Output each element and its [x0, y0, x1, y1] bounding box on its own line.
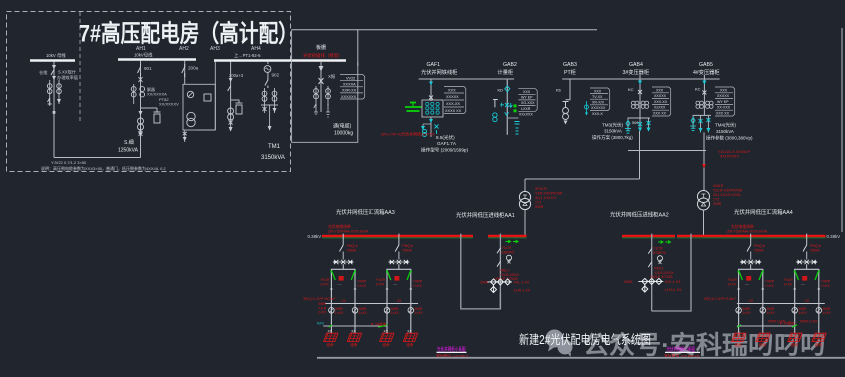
cyan diamond	[505, 86, 510, 92]
svg-text:YJLV22-X.X/XXkV²: YJLV22-X.X/XXkV²	[718, 150, 751, 154]
svg-text:组串: 组串	[735, 342, 743, 347]
cyan feeder marks	[626, 121, 630, 127]
svg-text:3P(L)+1.5?P+4C/m²: 3P(L)+1.5?P+4C/m²	[303, 297, 336, 301]
CT pair left (stacked circles)	[131, 87, 136, 97]
wire: GAB5 column down	[703, 132, 705, 190]
T bar	[628, 117, 651, 119]
section line S2	[562, 78, 720, 80]
svg-text:1250kVA: 1250kVA	[118, 148, 139, 154]
svg-text:XXX: XXX	[594, 89, 602, 93]
wire down to link	[53, 113, 55, 158]
svg-text:0.38kV: 0.38kV	[827, 234, 841, 239]
PT chain	[563, 102, 569, 108]
X on left leg	[264, 105, 266, 113]
svg-text:XX: XX	[397, 299, 402, 303]
cyan arrow top	[638, 81, 642, 85]
busbar C (continues out of box)	[214, 59, 346, 62]
svg-text:1×XX: 1×XX	[318, 311, 327, 315]
red label at T-GAB5	[713, 184, 743, 206]
CT right (double circle)	[57, 84, 62, 94]
svg-text:AH2: AH2	[179, 46, 189, 52]
cyan arrow top	[702, 81, 706, 85]
wire: D drop	[267, 62, 269, 65]
GAB3 table	[590, 88, 608, 111]
svg-text:3X10XXXX: 3X10XXXX	[720, 155, 739, 159]
svg-text:XX/XXXXV: XX/XXXXV	[159, 102, 179, 107]
X breaker	[702, 91, 706, 95]
wire: AA2 loop	[652, 234, 691, 311]
bracket bar	[261, 104, 278, 106]
busbar right A	[622, 235, 675, 237]
svg-text:Y×XX: Y×XX	[413, 284, 423, 288]
red label column far left	[318, 302, 327, 315]
T bar	[693, 114, 711, 116]
svg-text:XXXXX: XXXXX	[654, 94, 667, 98]
fuse X row group 2	[389, 260, 410, 270]
svg-text:组串: 组串	[327, 342, 335, 347]
PV string panel at 354.2	[347, 330, 361, 347]
svg-text:.....: .....	[393, 282, 398, 286]
svg-text:.....: .....	[337, 282, 342, 286]
svg-text:3L(1.1/1XX.X: 3L(1.1/1XX.X	[535, 196, 557, 200]
arrow right branch	[57, 99, 61, 104]
green earth marks right	[737, 325, 797, 327]
wire: GAB4 drop	[639, 75, 641, 118]
combiner cabinet 3 (open frame)	[727, 269, 774, 303]
svg-text:XX: XX	[805, 299, 810, 303]
circle w/ squiggle (PT)	[264, 66, 271, 73]
arrow on right leg	[274, 105, 276, 113]
svg-text:XR-X/X: XR-X/X	[592, 101, 605, 105]
svg-text:/250A: /250A	[810, 248, 820, 252]
wire branch left B1	[133, 84, 135, 104]
internal dashed divider	[79, 12, 81, 121]
svg-text:PT柜: PT柜	[564, 68, 576, 76]
svg-text:YZR-XXXPX/XW: YZR-XXXPX/XW	[535, 192, 563, 196]
busbar A	[30, 59, 75, 61]
breaker slash	[51, 70, 54, 76]
svg-text:XXX: XXX	[448, 89, 456, 93]
svg-text:计量柜: 计量柜	[498, 68, 514, 76]
svg-text:GAF1.7A: GAF1.7A	[437, 141, 457, 146]
svg-text:XWLR: XWLR	[713, 184, 724, 188]
svg-text:WY EP: WY EP	[717, 100, 729, 104]
svg-text:506: 506	[632, 121, 638, 125]
svg-text:TM3(光伏): TM3(光伏)	[602, 122, 623, 129]
svg-text:XWR: XWR	[535, 205, 544, 209]
svg-text:Y×XX: Y×XX	[821, 284, 831, 288]
svg-text:ZR-YZW/NH-XXX/1kVA: ZR-YZW/NH-XXX/1kVA	[727, 230, 767, 234]
breaker slash	[648, 249, 651, 254]
cyan symbols on GAB2	[501, 103, 504, 107]
svg-text:办理效率值: 办理效率值	[57, 74, 78, 81]
three feeders	[692, 115, 694, 128]
meter circle	[506, 255, 511, 260]
svg-text:1×XX: 1×XX	[766, 311, 775, 315]
svg-text:3X1.1/1XX.XX/XL: 3X1.1/1XX.XX/XL	[713, 193, 741, 197]
svg-text:光伏电缆线带: 光伏电缆线带	[328, 224, 351, 229]
breaker slash D	[265, 78, 268, 88]
arrow on B1	[139, 111, 143, 116]
svg-text:XXX-XX: XXX-XX	[654, 100, 668, 104]
table bracket	[363, 75, 365, 99]
fuse X row group 1	[333, 260, 354, 270]
svg-text:光伏初级排（框架）: 光伏初级排（框架）	[303, 52, 343, 59]
wire: AA2 chain	[651, 234, 653, 311]
breaker slash	[497, 248, 500, 253]
svg-text:1×XX: 1×XX	[359, 311, 368, 315]
GAB5 table	[715, 87, 733, 116]
top feeder line	[292, 29, 597, 31]
svg-text:XX: XX	[351, 330, 356, 334]
svg-text:XXL-1 XX: XXL-1 XX	[665, 280, 681, 284]
svg-text:XX: XX	[749, 299, 754, 303]
wires 3 to strings	[738, 304, 740, 334]
three feeders	[627, 118, 629, 131]
wire: link down-left to AA1 transformer	[525, 178, 640, 180]
meter circle	[657, 256, 662, 261]
GAB4 table	[652, 87, 669, 116]
wire to AA1 bus	[524, 210, 526, 235]
svg-text:操作方案 (3800,7kg): 操作方案 (3800,7kg)	[592, 134, 633, 141]
svg-text:XWR: XWR	[713, 202, 722, 206]
svg-text:XXXXXX: XXXXXX	[591, 106, 606, 110]
svg-text:AH3: AH3	[210, 46, 220, 52]
wire branch right D	[274, 88, 276, 105]
green marks on AA1 bus	[506, 240, 519, 243]
wire branch left D	[264, 88, 266, 105]
string meters 2	[384, 308, 413, 314]
svg-text:说明：高压侧电缆参数为XXX3×50，普通门，低压侧参数为4: 说明：高压侧电缆参数为XXX3×50，普通门，低压侧参数为4XX/4L 0.2	[41, 165, 166, 171]
svg-text:XPXLR: XPXLR	[535, 187, 547, 191]
wire: box bottom link	[196, 129, 215, 131]
svg-text:光伏并网低压汇流箱AA4: 光伏并网低压汇流箱AA4	[734, 208, 793, 216]
PV string panel at 330.5	[324, 330, 338, 347]
cyan dashes column	[515, 122, 520, 135]
svg-text:KD: KD	[498, 88, 504, 93]
svg-text:2P(L)+1.5?P+2.5m²: 2P(L)+1.5?P+2.5m²	[704, 297, 736, 301]
wire: GAB3 stub	[566, 79, 571, 100]
enclosure dashed border	[7, 12, 291, 172]
branch left	[315, 86, 317, 106]
svg-text:XX: XX	[328, 330, 333, 334]
slash 2	[648, 262, 651, 267]
PV cabinet box	[292, 30, 358, 143]
svg-text:200a+3: 200a+3	[229, 73, 244, 78]
section line S1	[419, 78, 514, 80]
arrow below	[183, 137, 187, 141]
svg-text:YZLR-XXXPX/XW: YZLR-XXXPX/XW	[713, 189, 743, 193]
wire: GAF1 drop	[430, 79, 432, 101]
bottom frame line	[317, 357, 845, 359]
svg-text:组串: 组串	[406, 342, 414, 347]
transformer T-GAB5	[698, 191, 710, 211]
string meters 1	[329, 308, 358, 314]
CT left (double circle)	[47, 84, 52, 94]
svg-text:901: 901	[144, 66, 152, 71]
wire: drop in cabinet	[320, 62, 322, 112]
svg-text:光伏并网柜小系图: 光伏并网柜小系图	[667, 346, 696, 353]
GAB2 table	[518, 89, 535, 112]
table texts	[341, 77, 357, 99]
cyan arrow	[429, 82, 433, 86]
svg-text:GAF1: GAF1	[427, 62, 441, 68]
PV string panel at 762.8	[756, 333, 770, 347]
GAF1 table rows	[444, 87, 464, 114]
svg-text:XXX: XXX	[720, 88, 728, 92]
breaker 901 slash	[138, 64, 141, 76]
svg-text:/250A: /250A	[402, 248, 412, 252]
svg-text:XxXXX: XxXXX	[654, 106, 666, 110]
watermark logo bubbles	[546, 330, 573, 358]
CT D left	[262, 91, 267, 101]
svg-text:XWR 1×XX: XWR 1×XX	[800, 320, 818, 324]
wire: B1 drop	[140, 61, 142, 158]
green earth marks left	[329, 325, 388, 327]
svg-text:.....: .....	[745, 282, 750, 286]
wire: feed to metering box	[214, 62, 216, 131]
PV string group 4 feeder breaker	[803, 234, 821, 260]
wire: GAB2 drop	[506, 79, 508, 135]
wire to right PV bus	[703, 210, 705, 235]
svg-text:XXX XX: XXX XX	[653, 112, 667, 116]
svg-text:NXX: NXX	[317, 322, 325, 326]
CT on B1 (double circle)	[138, 118, 144, 130]
wires 1 to strings	[330, 304, 332, 334]
wire: right edge feeder	[841, 28, 843, 232]
svg-text:XXxXXX: XXxXXX	[519, 113, 533, 117]
svg-text:组串: 组串	[383, 342, 391, 347]
green squares	[514, 104, 517, 107]
string meters 4	[792, 308, 822, 314]
svg-text:8.5(光伏): 8.5(光伏)	[436, 134, 455, 141]
svg-text:XXXXX: XXXXX	[446, 95, 459, 99]
svg-text:LXXR: LXXR	[521, 107, 531, 111]
svg-text:902: 902	[272, 73, 280, 78]
inverter transformer box	[422, 100, 443, 117]
wire: C1 drop	[230, 62, 232, 132]
CT D right	[272, 91, 277, 101]
svg-text:1×XX: 1×XX	[783, 282, 792, 286]
svg-text:XXX: XXX	[656, 88, 664, 92]
svg-text:XG-XXX: XG-XXX	[521, 101, 535, 105]
svg-text:XXXXA: XXXXA	[343, 83, 356, 87]
svg-text:Kb: Kb	[556, 88, 562, 93]
svg-text:光伏电缆线带: 光伏电缆线带	[731, 224, 754, 229]
combiner cabinet 1 (open frame)	[320, 269, 367, 303]
svg-text:XXX-XX: XXX-XX	[446, 102, 460, 106]
svg-text:7#高压配电房（高计配）: 7#高压配电房（高计配）	[79, 20, 298, 48]
svg-text:新建2#光伏配电房电气系统图: 新建2#光伏配电房电气系统图	[519, 332, 651, 347]
PV string panel at 410.2	[403, 330, 417, 347]
svg-text:200A: 200A	[624, 280, 633, 284]
svg-text:VV22: VV22	[346, 77, 355, 81]
svg-text:1×XX: 1×XX	[376, 282, 385, 286]
meter circle	[187, 91, 193, 97]
svg-text:组串: 组串	[759, 342, 767, 347]
PV string panel at 794.7	[788, 333, 802, 347]
green marks on bus	[658, 241, 671, 244]
wire link to transformer B	[54, 157, 141, 159]
svg-text:仓缆: 仓缆	[39, 69, 48, 76]
wire: branch right	[58, 80, 60, 104]
busbar AA1 (red)	[488, 235, 527, 237]
PV string group 3 feeder breaker	[747, 234, 765, 260]
wire: section A main drop	[53, 62, 55, 114]
svg-text:10000kg: 10000kg	[334, 131, 353, 137]
cyan capacitor branch	[586, 101, 588, 113]
svg-text:1x7b-1 XX: 1x7b-1 XX	[665, 288, 682, 292]
right meters line	[737, 303, 825, 305]
svg-text:TV-XX: TV-XX	[592, 95, 603, 99]
winding circles (cyan)	[426, 102, 440, 114]
svg-text:XWLP 1/7X25: XWLP 1/7X25	[650, 275, 673, 279]
arrow C1 bottom	[229, 127, 233, 132]
PV string panel at 386.5	[380, 330, 394, 347]
svg-text:XXX-X: XXX-X	[592, 112, 603, 116]
small element	[204, 94, 211, 101]
svg-text:XXXX XX: XXXX XX	[445, 109, 462, 113]
svg-text:光伏并网低压进线柜AA1: 光伏并网低压进线柜AA1	[456, 211, 515, 219]
step line	[507, 117, 518, 119]
svg-text:XXR-XX: XXR-XX	[342, 89, 357, 93]
svg-text:YJV22 0.7/1.2 3×50: YJV22 0.7/1.2 3×50	[51, 160, 87, 165]
svg-text:200A: 200A	[480, 281, 489, 285]
svg-text:10kV母线: 10kV母线	[134, 52, 153, 59]
breaker X	[139, 77, 143, 82]
disconnector arrow	[52, 65, 56, 70]
wire: feeder drop to bus	[357, 30, 359, 66]
right earth link	[737, 325, 795, 327]
svg-text:1x7b-1 XX: 1x7b-1 XX	[514, 289, 531, 293]
PV string panel at 738.6	[732, 333, 746, 347]
PV string group 1 feeder breaker	[340, 234, 358, 260]
svg-text:GAB4: GAB4	[629, 62, 643, 68]
svg-text:XX: XX	[341, 299, 346, 303]
CT circles right	[326, 89, 331, 99]
svg-text:GAB3: GAB3	[563, 62, 577, 68]
wire: horizontal link GAB4-GAB5	[628, 150, 706, 152]
cyan feeder marks	[691, 118, 695, 124]
svg-text:1×XX: 1×XX	[414, 311, 423, 315]
svg-text:1×XX: 1×XX	[742, 311, 751, 315]
svg-text:GAB2: GAB2	[503, 62, 517, 68]
svg-text:组串: 组串	[815, 342, 823, 347]
svg-text:1×XX: 1×XX	[727, 282, 736, 286]
X C1	[229, 121, 233, 125]
svg-text:3150kVA: 3150kVA	[261, 155, 285, 161]
wire spur to capacitor	[141, 107, 158, 109]
svg-text:AH1: AH1	[136, 46, 146, 52]
svg-text:ESDP/2: ESDP/2	[653, 251, 666, 255]
CT circles left	[314, 89, 319, 99]
red arrow on GAB5 down wire	[702, 164, 706, 168]
green earthing bars	[405, 103, 422, 112]
X breaker	[319, 78, 324, 84]
wire: branch left	[49, 80, 51, 106]
svg-text:/250A: /250A	[347, 248, 357, 252]
svg-text:XX: XX	[384, 330, 389, 334]
wire below box	[184, 130, 186, 142]
PV string group 2 feeder breaker	[395, 234, 413, 260]
CT cluster	[631, 101, 648, 108]
metering box	[183, 84, 215, 130]
slash 2	[497, 261, 500, 266]
diamond row	[642, 278, 662, 292]
svg-text:10kV 母线: 10kV 母线	[46, 52, 66, 59]
svg-text:1×XX: 1×XX	[320, 282, 329, 286]
svg-text:Y×XX: Y×XX	[765, 284, 775, 288]
svg-text:XXX XX: XXX XX	[716, 112, 730, 116]
wire: AA1 loop	[461, 234, 501, 309]
svg-text:3150kVA: 3150kVA	[716, 129, 734, 134]
junction circle	[139, 131, 142, 134]
CT C1 double circle	[228, 108, 234, 120]
CT pair right	[140, 87, 145, 97]
PV string panel at 818.8	[812, 333, 826, 347]
left earth link	[323, 325, 387, 327]
svg-text:1×XX: 1×XX	[798, 311, 807, 315]
wire: AA1 chain	[499, 234, 501, 308]
svg-text:TM1: TM1	[268, 144, 281, 150]
diamond row	[491, 279, 511, 293]
svg-text:WY EP: WY EP	[521, 96, 533, 100]
X breaker	[638, 90, 642, 94]
wires 4 to strings	[794, 304, 796, 334]
svg-text:操作参数 (3800,380Vp): 操作参数 (3800,380Vp)	[706, 135, 753, 142]
svg-text:1×XX: 1×XX	[391, 311, 400, 315]
X	[429, 96, 433, 100]
svg-text:3#变压器柜: 3#变压器柜	[623, 68, 650, 76]
combiner cabinet 4 (open frame)	[783, 269, 830, 303]
svg-text:消防模块 (AT-PSU2): 消防模块 (AT-PSU2)	[664, 353, 700, 360]
svg-text:ZR-YZW/NH-XXX/1kVA: ZR-YZW/NH-XXX/1kVA	[328, 230, 368, 234]
left meters line	[325, 303, 418, 305]
svg-text:3150kVA: 3150kVA	[604, 129, 622, 134]
arrow	[319, 66, 324, 72]
cyan V	[505, 112, 509, 115]
svg-text:光伏并网低压进线柜AA2: 光伏并网低压进线柜AA2	[610, 211, 669, 219]
svg-text:组串: 组串	[791, 342, 799, 347]
svg-text:4#变压器柜: 4#变压器柜	[693, 68, 720, 76]
svg-text:消防模块 (AT-PSU): 消防模块 (AT-PSU)	[436, 353, 469, 360]
svg-text:ZR-L/?R²-X(光伏并网线)XXXXX: ZR-L/?R²-X(光伏并网线)XXXXX	[381, 132, 435, 137]
table block right of cabinet	[340, 75, 363, 99]
svg-text:S.细: S.细	[124, 139, 134, 146]
breaker slash B2	[182, 64, 185, 77]
earth left	[314, 104, 318, 114]
svg-text:ESDP/2: ESDP/2	[502, 250, 515, 254]
svg-text:光伏并网柜小系图: 光伏并网柜小系图	[437, 346, 466, 353]
fuse X row group 3	[740, 260, 761, 270]
wires 2 to strings	[386, 304, 388, 334]
capacitor spur C1	[231, 100, 243, 103]
svg-text:▼ 1#接地: ▼ 1#接地	[370, 322, 386, 327]
svg-text:XXXXXX: XXXXXX	[341, 95, 357, 99]
svg-text:XWR 1×XX: XWR 1×XX	[768, 320, 786, 324]
earth right	[326, 104, 330, 117]
small x	[508, 261, 511, 264]
string meters 3	[736, 308, 766, 314]
svg-text:/250A: /250A	[754, 248, 764, 252]
fuse X row group 4	[796, 260, 817, 270]
svg-text:上…PT1-92-6: 上…PT1-92-6	[234, 52, 261, 58]
breaker X bottom	[139, 132, 143, 137]
earth left	[48, 98, 52, 104]
svg-text:1×XX: 1×XX	[335, 311, 344, 315]
svg-text:.....: .....	[801, 282, 806, 286]
busbar B	[118, 58, 196, 60]
